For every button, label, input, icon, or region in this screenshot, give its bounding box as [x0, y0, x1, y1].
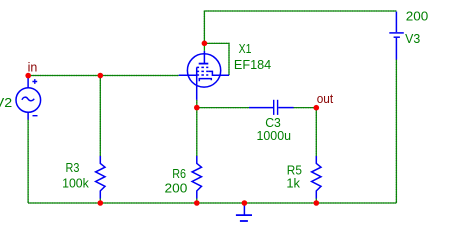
svg-text:1k: 1k [286, 176, 300, 191]
svg-text:100k: 100k [62, 175, 89, 190]
svg-text:V3: V3 [405, 31, 420, 46]
svg-text:EF184: EF184 [234, 57, 271, 72]
svg-text:200: 200 [165, 180, 188, 195]
svg-text:in: in [28, 60, 38, 75]
svg-text:out: out [317, 91, 334, 106]
svg-text:R6: R6 [172, 166, 186, 181]
svg-text:1000u: 1000u [257, 128, 292, 143]
svg-text:V2: V2 [0, 95, 12, 110]
svg-text:X1: X1 [239, 41, 252, 56]
svg-text:200: 200 [406, 8, 429, 23]
svg-text:R3: R3 [66, 160, 80, 175]
